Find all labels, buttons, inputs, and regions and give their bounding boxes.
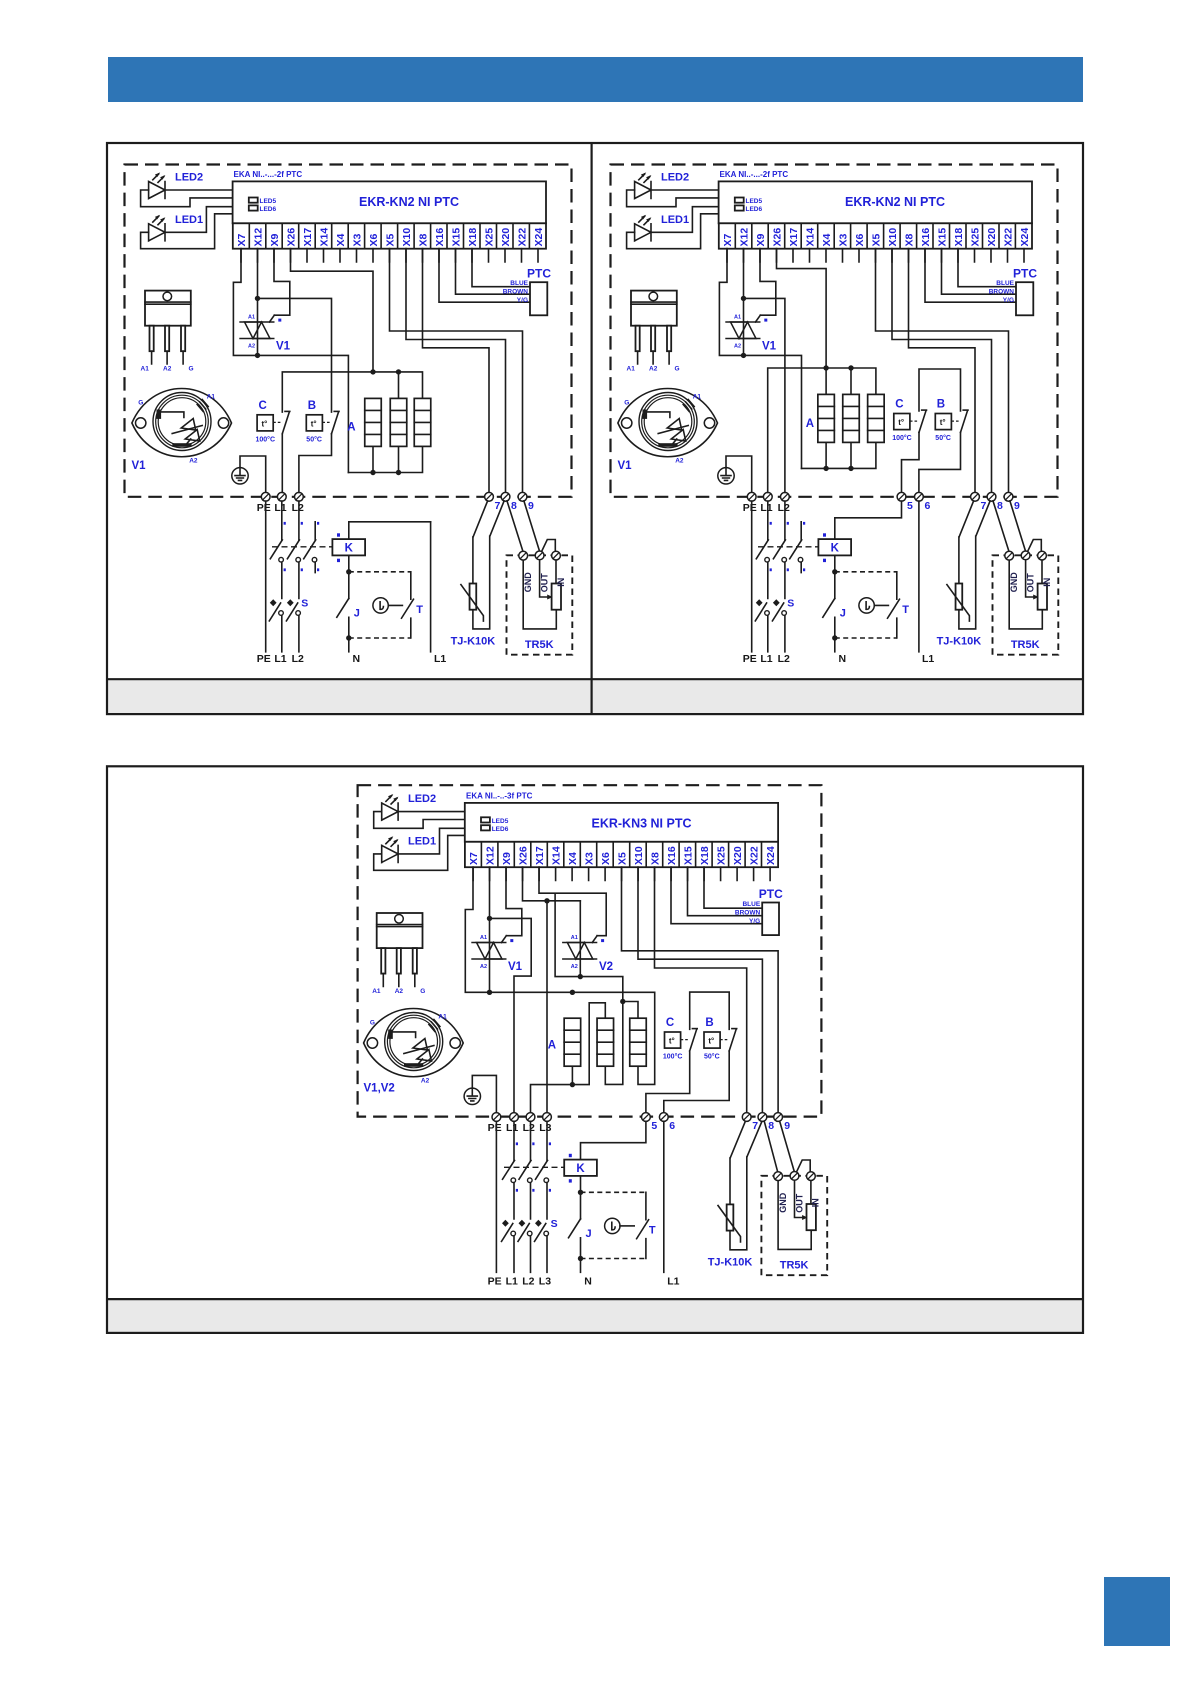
svg-text:L3: L3 <box>539 1275 551 1287</box>
svg-text:B: B <box>705 1017 713 1029</box>
wire triac top to terminal L2 <box>744 298 785 492</box>
switch C to terminal L1 <box>281 434 283 493</box>
wire X7 to V1 bottom rail and R3 <box>465 867 654 1084</box>
svg-text:7: 7 <box>752 1120 758 1132</box>
svg-text:L1: L1 <box>667 1275 679 1287</box>
svg-text:C: C <box>259 400 267 412</box>
EKR-KN3 controller box <box>465 803 778 842</box>
svg-text:A: A <box>347 422 355 434</box>
svg-text:100°C: 100°C <box>892 434 912 442</box>
svg-text:50°C: 50°C <box>704 1053 720 1061</box>
svg-text:L3: L3 <box>539 1122 551 1134</box>
svg-text:LED2: LED2 <box>408 793 436 805</box>
wires 7,8 to TJ-K10K <box>730 1121 762 1157</box>
link over C and B switches <box>919 369 961 411</box>
thermal switch C <box>894 410 927 432</box>
svg-text:100°C: 100°C <box>663 1053 683 1061</box>
L1 line with poles <box>513 1121 515 1272</box>
svg-text:S: S <box>551 1218 558 1230</box>
wire X7 to triac bottom and A bank <box>233 249 348 473</box>
footer blue square <box>1104 1577 1170 1646</box>
svg-text:100°C: 100°C <box>256 436 276 444</box>
wire X26 to A bank top rail <box>777 249 827 395</box>
K coil to terminal 5 <box>835 501 902 539</box>
terminal strip X7..X24 <box>465 842 778 881</box>
wire LED2 anode loop <box>374 812 465 829</box>
svg-text:L2: L2 <box>522 1275 534 1287</box>
svg-text:B: B <box>937 399 945 411</box>
mechanical link to K <box>504 1166 564 1168</box>
svg-text:V1: V1 <box>508 961 523 973</box>
svg-text:L1: L1 <box>506 1275 518 1287</box>
svg-text:EKA NI..-..-3f PTC: EKA NI..-..-3f PTC <box>466 792 533 801</box>
branch to R3 top <box>623 1002 638 1019</box>
triac V2 main line <box>579 901 581 977</box>
thermal switch B <box>935 410 968 432</box>
switch B to terminal 6 <box>664 1051 729 1113</box>
triac V1 main line from X12 <box>489 867 491 992</box>
L1 supply from terminal 6 <box>663 1121 665 1272</box>
relay coil K <box>564 1160 597 1176</box>
resistor bank A <box>564 1018 581 1066</box>
svg-text:N: N <box>584 1275 592 1287</box>
wire X5 to terminal 9 <box>622 867 779 1113</box>
TJ-K10K sensor <box>708 1157 753 1268</box>
svg-text:50°C: 50°C <box>935 434 951 442</box>
svg-text:PTC: PTC <box>759 887 783 901</box>
svg-text:A: A <box>806 418 814 430</box>
wire X17 to V2 bottom, R3 top, R2 bottom <box>539 867 623 1084</box>
A bank top rail to terminal L1 <box>768 368 876 492</box>
svg-text:8: 8 <box>768 1120 774 1132</box>
switch B to terminal L2 <box>299 434 332 493</box>
svg-text:Y/G: Y/G <box>749 918 760 925</box>
PTC connector <box>762 903 779 936</box>
svg-text:5: 5 <box>907 500 913 512</box>
thermal switch B <box>306 411 339 433</box>
resistor bank A <box>818 394 835 442</box>
LED2 <box>382 794 399 820</box>
A bank top rail from switch C <box>282 372 422 412</box>
L1 supply line <box>430 522 432 652</box>
wire X10 to terminal 8 <box>638 867 762 1113</box>
switch B to terminal 6 <box>919 432 961 492</box>
outer frames and caption bars <box>107 143 1083 1333</box>
svg-text:C: C <box>666 1017 674 1029</box>
terminals 7 8 9 <box>742 1113 751 1122</box>
wire LED1 cathode <box>398 828 465 854</box>
svg-text:J: J <box>586 1228 592 1240</box>
terminals PE L1 L2 L3 <box>492 1113 501 1122</box>
svg-text:BROWN: BROWN <box>735 910 761 917</box>
svg-text:5: 5 <box>651 1120 657 1132</box>
K coil to L1 supply <box>349 522 431 539</box>
wire X7 to triac bottom and A bank bottom rail <box>719 249 801 469</box>
wires 8,9 to TR5K <box>764 1121 794 1172</box>
svg-text:BLUE: BLUE <box>742 901 760 908</box>
terminals 5 6 <box>897 492 906 501</box>
svg-text:6: 6 <box>669 1120 675 1132</box>
svg-text:L1: L1 <box>434 653 446 665</box>
A bank bottom rail <box>348 446 422 472</box>
svg-text:LED5: LED5 <box>492 818 509 825</box>
wire triac top to switch B <box>258 298 332 412</box>
TO-220 package <box>372 913 425 995</box>
switch C to terminal 5 <box>902 432 920 492</box>
svg-text:V2: V2 <box>599 961 613 973</box>
wire X26 to A bank top rail <box>291 249 374 372</box>
A bank bottom rail <box>802 442 876 468</box>
LED1 <box>382 836 399 862</box>
wire X16 to PTC <box>671 867 762 924</box>
svg-text:V1,V2: V1,V2 <box>364 1083 395 1095</box>
L3 line with poles <box>546 1121 548 1272</box>
TO-3 can V1,V2 <box>364 1009 464 1085</box>
svg-text:K: K <box>576 1163 585 1175</box>
svg-text:T: T <box>649 1224 656 1236</box>
ground to PE <box>472 1075 496 1112</box>
svg-text:LED6: LED6 <box>492 826 509 833</box>
wire X18 to PTC <box>704 867 762 908</box>
thermal switch C <box>257 411 290 433</box>
K coil to terminal 5 <box>581 1121 646 1159</box>
svg-text:50°C: 50°C <box>306 436 322 444</box>
V1 gate from X9 <box>506 867 522 936</box>
switch C to terminal 5 <box>646 1051 690 1113</box>
ground symbol <box>464 1088 480 1104</box>
svg-text:A: A <box>548 1040 556 1052</box>
svg-text:PE: PE <box>488 1275 502 1287</box>
N line <box>580 1259 582 1273</box>
wire LED2 cathode <box>398 811 465 813</box>
thermostat with J and T contacts <box>569 1190 656 1262</box>
inner dashed border <box>358 785 822 1116</box>
L2 line with poles <box>530 1121 532 1272</box>
svg-text:PE: PE <box>488 1122 502 1134</box>
K coil to thermostat <box>580 1176 582 1192</box>
V1 top to terminal L1 <box>490 918 532 1112</box>
svg-text:L1: L1 <box>506 1122 518 1134</box>
svg-text:6: 6 <box>925 500 931 512</box>
svg-text:L2: L2 <box>523 1122 535 1134</box>
L1 supply line from terminal 6 <box>918 501 920 652</box>
svg-text:EKR-KN3 NI PTC: EKR-KN3 NI PTC <box>591 817 691 831</box>
terminals 5 6 <box>642 1113 651 1122</box>
wire X15 to PTC <box>688 867 763 916</box>
PE line <box>495 1121 497 1272</box>
header bar <box>108 57 1083 102</box>
svg-text:9: 9 <box>784 1120 790 1132</box>
thermal switch C <box>665 1029 698 1051</box>
thermal switch B <box>704 1029 737 1051</box>
wire LED1 anode <box>374 835 465 870</box>
wire X8 to terminal 7 <box>655 867 747 1113</box>
resistor bank A <box>365 398 382 446</box>
TR5K <box>761 1160 827 1275</box>
link over C and B switches <box>690 992 730 1029</box>
svg-text:L1: L1 <box>922 653 934 665</box>
svg-text:B: B <box>308 400 316 412</box>
L2 to R1 bottom and R2 top <box>531 1003 606 1113</box>
wire X26 to V2 top and L3 <box>523 867 581 1113</box>
svg-text:LED1: LED1 <box>408 836 436 848</box>
svg-text:C: C <box>895 399 903 411</box>
